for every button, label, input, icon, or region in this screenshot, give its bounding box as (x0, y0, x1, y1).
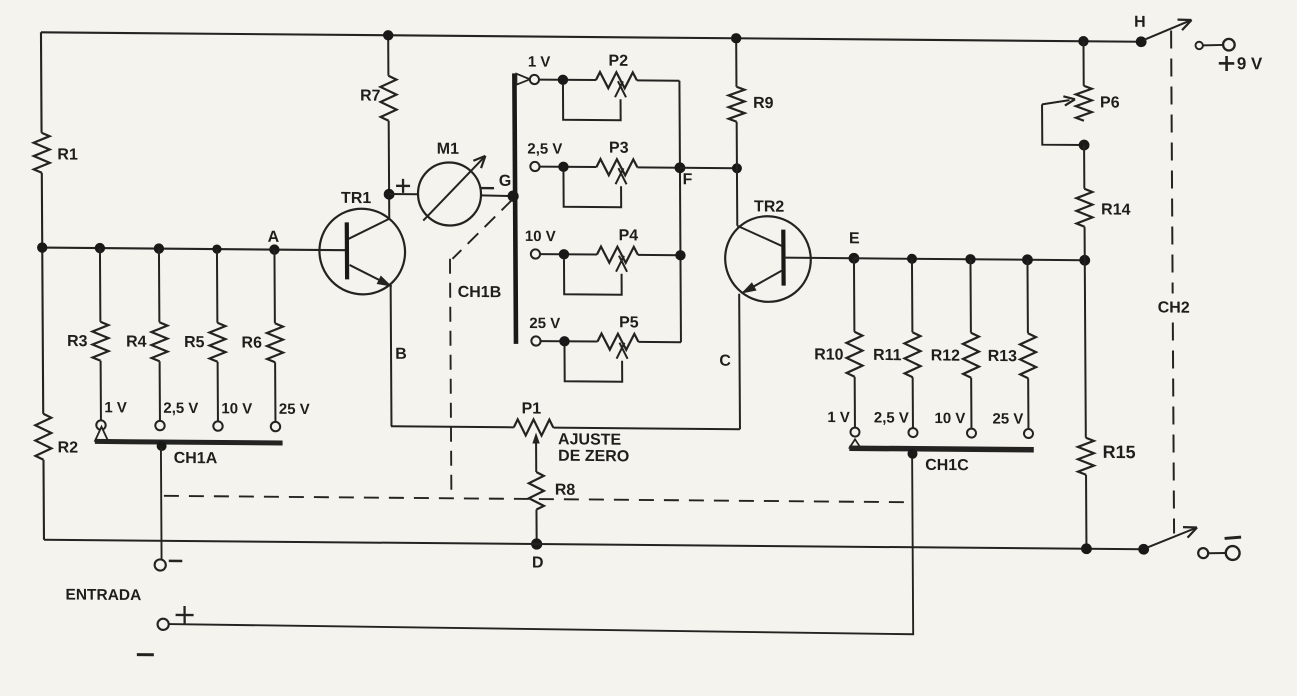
wire P6 to R14 (1083, 145, 1085, 189)
switch CH1B common bar (514, 73, 516, 344)
transistor TR1 (319, 208, 405, 294)
wire node-A row (42, 248, 346, 251)
svg-text:R8: R8 (555, 482, 576, 499)
switch CH1C wiper contact (850, 439, 861, 448)
junction P5 input (559, 336, 569, 346)
wire R8 to node D (535, 510, 537, 545)
svg-text:TR1: TR1 (341, 190, 371, 207)
terminal minus small (1198, 548, 1208, 558)
svg-text:F: F (683, 171, 693, 188)
wire P5 left lead (541, 340, 598, 342)
wire ENTRADA plus to CH1C pole (168, 451, 913, 634)
svg-text:R6: R6 (241, 334, 262, 351)
svg-text:25 V: 25 V (529, 315, 560, 332)
svg-text:R10: R10 (814, 346, 844, 363)
wire minus terminal link (1208, 552, 1226, 554)
svg-text:P2: P2 (608, 53, 628, 70)
switch CH1A bar (95, 441, 283, 443)
wire bottom bus (44, 540, 1144, 549)
resistor R7 (380, 76, 396, 121)
wire node E to R15 (1085, 260, 1086, 438)
transistor TR2 (725, 216, 811, 302)
terminal 1 V CH1C (850, 428, 859, 437)
junction node F (675, 162, 686, 173)
terminal ENTRADA minus (155, 559, 166, 570)
wire TR2 base to node E (783, 257, 854, 260)
svg-text:2,5 V: 2,5 V (874, 409, 909, 426)
svg-text:R9: R9 (753, 95, 774, 112)
wire P3 left lead (540, 166, 597, 168)
label minus (meter) (480, 187, 494, 189)
svg-text:R4: R4 (126, 334, 147, 351)
junction E-row R13 (1022, 254, 1033, 265)
terminal 2,5 V CH1B (530, 162, 539, 171)
wire R3 column (99, 248, 101, 322)
junction R9 column at F row (732, 163, 742, 173)
wire R14 to node E (1084, 227, 1086, 260)
junction top bus / R7 (383, 30, 393, 40)
junction node H (1136, 36, 1147, 47)
terminal 10 V CH1B (531, 249, 540, 258)
label plus (entrada) (176, 614, 194, 616)
terminal ENTRADA plus (158, 619, 169, 630)
svg-text:R3: R3 (67, 333, 88, 350)
svg-text:2,5 V: 2,5 V (163, 400, 198, 417)
potentiometer P2 (596, 72, 637, 88)
svg-text:B: B (395, 346, 407, 363)
resistor R14 (1076, 189, 1092, 227)
potentiometer P6 (1076, 86, 1092, 121)
junction P6 bottom (1079, 140, 1090, 151)
wire TR2 emitter node-C column (738, 294, 741, 430)
svg-text:10 V: 10 V (221, 400, 252, 417)
terminal minus battery (1226, 546, 1240, 560)
resistor R15 (1078, 438, 1094, 475)
svg-text:10 V: 10 V (934, 410, 965, 427)
wire R5 column (216, 249, 218, 323)
stray mark (caption start) (137, 653, 154, 656)
wire P5 right lead (638, 341, 681, 343)
svg-text:25 V: 25 V (992, 410, 1023, 427)
junction A-row R4 (154, 243, 164, 253)
junction A-row R6 (node A) (269, 244, 279, 254)
wire TR1 collector to meter node (388, 121, 391, 219)
svg-text:P1: P1 (522, 400, 542, 417)
svg-text:AJUSTE: AJUSTE (558, 431, 622, 449)
switch CH1B wiper contact (516, 74, 530, 85)
wire TR1 emitter node-B column (390, 286, 393, 426)
switch linkage CH1A-CH1B-CH1C (dashed) (164, 496, 909, 502)
wire R9 to TR2 collector (736, 122, 739, 226)
junction top bus / P6 column (1078, 36, 1088, 46)
junction top bus / R9 (731, 33, 741, 43)
junction bottom bus / CH2 switch (1138, 544, 1149, 555)
svg-text:R1: R1 (57, 146, 78, 163)
junction E-row R14 column (1079, 255, 1090, 266)
wire node B to P1 (391, 426, 514, 427)
junction bottom bus / R15 (1081, 543, 1092, 554)
svg-text:M1: M1 (437, 141, 459, 158)
switch CH1B linkage (dashed) (452, 199, 512, 259)
svg-text:R2: R2 (58, 439, 79, 456)
junction P3 input (558, 162, 568, 172)
junction meter plus node (384, 189, 395, 200)
terminal 2,5 V CH1C (908, 428, 917, 437)
terminal 10 V CH1C (967, 429, 976, 438)
terminal 25 V CH1C (1024, 429, 1033, 438)
svg-text:DE ZERO: DE ZERO (558, 448, 629, 466)
wire P4 left lead (540, 253, 597, 255)
svg-text:TR2: TR2 (754, 198, 784, 215)
switch CH1C bar (849, 448, 1033, 450)
terminal 25 V CH1B (531, 336, 540, 345)
wire R15 to bottom bus (1085, 475, 1087, 549)
svg-text:C: C (719, 353, 731, 370)
junction node E (849, 253, 860, 264)
junction node D (531, 538, 542, 549)
switch CH2 lower contact arm (1147, 527, 1197, 548)
wire meter plus lead (389, 193, 418, 195)
svg-text:P4: P4 (619, 227, 639, 244)
wire R7 to top bus (387, 35, 389, 76)
meter M1 (418, 162, 481, 226)
switch CH1C pole junction (907, 449, 917, 459)
svg-text:25 V: 25 V (279, 401, 310, 418)
svg-text:ENTRADA: ENTRADA (65, 586, 141, 604)
terminal +9V battery (1223, 39, 1235, 51)
wire P4 right lead (638, 254, 681, 256)
label minus (entrada) (169, 560, 183, 563)
wire R4 column (158, 249, 160, 323)
wire left vertical rail (40, 32, 43, 133)
svg-text:CH1B: CH1B (458, 284, 502, 301)
switch CH2 linkage (dashed) (1171, 31, 1173, 294)
label plus (meter) (396, 185, 410, 187)
switch CH1A wiper contact (95, 427, 108, 441)
terminal 25 V CH1A (271, 422, 280, 431)
resistor R2 (35, 414, 51, 460)
wire R6 column (273, 250, 275, 324)
wire P6 top lead (1082, 41, 1084, 85)
label plus (9V) (1219, 62, 1235, 65)
resistor R9 (728, 87, 744, 122)
svg-text:10 V: 10 V (525, 228, 556, 245)
svg-text:P5: P5 (619, 314, 639, 331)
svg-text:P3: P3 (609, 140, 629, 157)
terminal 1 V CH1A (96, 420, 105, 429)
terminal 2,5 V CH1A (155, 421, 164, 430)
potentiometer P1 (514, 419, 554, 435)
resistor R3 (92, 322, 108, 361)
junction node G (507, 190, 518, 201)
potentiometer P5 (597, 334, 638, 350)
wire F to R9 column (680, 167, 737, 169)
svg-text:9 V: 9 V (1237, 54, 1263, 73)
svg-text:R7: R7 (360, 88, 381, 105)
terminal 1 V CH1B (530, 75, 539, 84)
svg-text:CH1A: CH1A (174, 450, 218, 467)
wire P3 right lead (637, 166, 680, 168)
terminal +9V small (1195, 42, 1202, 49)
wire P1 to node C (553, 428, 740, 430)
switch CH2 upper contact arm (1144, 20, 1192, 41)
junction E-row R11 (907, 254, 917, 264)
svg-text:1 V: 1 V (827, 409, 850, 426)
wire R9 top lead (735, 38, 737, 87)
junction E-row R12 (965, 254, 975, 264)
wire meter minus lead (481, 194, 513, 197)
resistor R10 (846, 332, 862, 377)
svg-text:R11: R11 (873, 347, 902, 364)
svg-text:CH2: CH2 (1158, 299, 1190, 316)
svg-text:R13: R13 (988, 348, 1018, 365)
svg-text:E: E (849, 230, 860, 247)
svg-text:G: G (499, 173, 512, 190)
resistor R11 (904, 332, 920, 377)
svg-text:R12: R12 (931, 347, 961, 364)
svg-text:D: D (532, 554, 544, 571)
junction A-row R5 (212, 244, 221, 253)
wire R13 column (1026, 260, 1028, 334)
junction P2 input (558, 75, 568, 85)
wire top supply bus (41, 32, 1141, 41)
wire node E row (854, 258, 1085, 260)
wire P2 left lead (539, 79, 596, 81)
potentiometer P3 (596, 159, 637, 175)
resistor R5 (209, 323, 225, 362)
junction on left rail at A row (37, 242, 47, 252)
svg-text:R15: R15 (1103, 442, 1136, 462)
svg-text:A: A (268, 229, 280, 246)
junction A-row R3 (95, 243, 105, 253)
wire R10 column (853, 258, 855, 332)
label minus (battery) (1225, 537, 1242, 539)
svg-text:R14: R14 (1101, 201, 1131, 218)
svg-text:2,5 V: 2,5 V (527, 140, 562, 157)
terminal 10 V CH1A (213, 421, 222, 430)
wire CH1B right rail (679, 81, 681, 343)
resistor R1 (34, 133, 50, 173)
switch CH1A pole junction (157, 441, 167, 451)
svg-text:CH1C: CH1C (925, 457, 969, 474)
resistor R13 (1020, 333, 1036, 378)
potentiometer P4 (597, 247, 638, 263)
wire R11 column (911, 259, 913, 333)
resistor R4 (151, 322, 167, 361)
svg-text:1 V: 1 V (104, 399, 127, 416)
wire P2 right lead (637, 79, 680, 81)
svg-text:R5: R5 (184, 334, 205, 351)
resistor R8 (529, 472, 544, 510)
junction P4 input (559, 249, 569, 259)
resistor R6 (267, 323, 283, 362)
wire +9V terminal link (1203, 44, 1223, 47)
resistor R12 (963, 333, 979, 378)
junction P4 right (675, 250, 685, 260)
svg-text:H: H (1134, 14, 1146, 31)
svg-text:P6: P6 (1100, 94, 1120, 111)
wire CH1A pole to ENTRADA minus (160, 448, 163, 559)
wire R12 column (969, 259, 971, 333)
svg-text:1 V: 1 V (528, 53, 551, 70)
